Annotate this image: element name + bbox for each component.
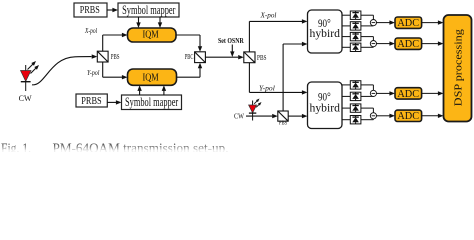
svg-text:hybird: hybird [310, 28, 341, 40]
svg-text:Symbol mapper: Symbol mapper [122, 3, 176, 17]
svg-text:ADC: ADC [397, 88, 419, 100]
symbol mapper box (X branch) [118, 3, 179, 17]
wire subtractor Y2 to ADC4 [377, 114, 396, 118]
photodiode box Y4 [350, 116, 361, 124]
svg-text:IQM: IQM [143, 30, 159, 41]
wire CW LO to PBS [246, 114, 278, 118]
wire ADC2 to DSP [422, 41, 444, 45]
wire symbol mapper to IQM (X) arrow 2 [158, 17, 162, 28]
balanced detector subtractor Y2 [370, 113, 376, 119]
90 degree hybrid (Y branch) [308, 82, 343, 129]
wire CW laser to PBS (curved fiber) [32, 54, 97, 84]
svg-text:CW: CW [19, 93, 32, 103]
svg-text:PBC: PBC [185, 53, 194, 61]
ADC box 3 [395, 88, 422, 100]
wires hybrid X outputs [342, 15, 350, 47]
wire IQM X to PBC [176, 35, 202, 52]
photodiode box X1 [350, 11, 361, 19]
balanced detector subtractor X1 [370, 20, 376, 26]
wire subtractor Y1 to ADC3 [377, 91, 396, 95]
PRBS generator box (Y branch) [76, 94, 107, 107]
wire PBS to IQM Y-pol [103, 62, 128, 79]
balanced detector subtractor Y1 [370, 90, 376, 96]
svg-text:PRBS: PRBS [80, 4, 100, 16]
wire PBS to IQM X-pol [103, 33, 128, 51]
symbol mapper box (Y branch) [122, 95, 182, 110]
svg-text:DSP processing: DSP processing [453, 29, 465, 107]
IQM modulator box (X branch) [128, 28, 177, 42]
photodiode box Y2 [350, 92, 361, 100]
wires photodiodes X pair 1 to subtractor [361, 15, 374, 26]
wire PBC to receiver PBS [205, 55, 243, 59]
wire LO PBS to 90 hybrid X [283, 42, 307, 111]
wire symbol mapper to IQM (Y) arrow 2 [162, 85, 166, 95]
svg-text:PBS: PBS [257, 54, 267, 62]
svg-text:PRBS: PRBS [81, 95, 101, 107]
svg-text:Y-pol: Y-pol [259, 83, 275, 92]
wires photodiodes Y pair 2 to subtractor [361, 108, 374, 120]
PBS polarization beam splitter (local oscillator) [278, 111, 288, 121]
wire subtractor X1 to ADC1 [377, 20, 396, 24]
svg-text:ADC: ADC [397, 17, 419, 29]
CW laser (local oscillator) [249, 97, 263, 120]
svg-text:hybird: hybird [310, 102, 341, 114]
wire IQM Y to PBC [177, 63, 203, 78]
wire PRBS to symbol mapper (X) [107, 8, 118, 12]
svg-text:X-pol: X-pol [260, 11, 277, 20]
ADC box 1 [395, 17, 422, 29]
DSP processing box [444, 15, 472, 122]
svg-text:ADC: ADC [397, 110, 419, 122]
PBS polarization beam splitter (transmitter) [97, 51, 108, 62]
wires hybrid Y outputs [342, 85, 350, 120]
svg-text:Symbol mapper: Symbol mapper [125, 95, 179, 109]
wire symbol mapper to IQM (Y) arrow 1 [137, 85, 141, 95]
wire PRBS to symbol mapper (Y) [107, 100, 121, 104]
ADC box 4 [395, 110, 422, 122]
PRBS generator box (X branch) [74, 3, 107, 17]
photodiode box X4 [350, 43, 361, 51]
balanced detector subtractor X2 [370, 41, 376, 47]
svg-text:Fig. 1.: Fig. 1. [1, 140, 31, 152]
wire subtractor X2 to ADC2 [377, 41, 396, 45]
wire receiver PBS to 90 hybrid Y [249, 63, 307, 95]
wire symbol mapper to IQM (X) arrow 1 [136, 17, 140, 28]
photodiode box X3 [350, 32, 361, 40]
svg-text:CW: CW [234, 112, 245, 121]
svg-text:PBS: PBS [111, 53, 120, 61]
svg-text:Set OSNR: Set OSNR [218, 37, 244, 45]
svg-text:Y-pol: Y-pol [87, 70, 99, 77]
PBS polarization beam splitter (receiver) [244, 52, 255, 63]
Set OSNR arrow [230, 45, 234, 58]
svg-text:X-pol: X-pol [84, 28, 97, 35]
CW laser (transmitter) [21, 60, 41, 91]
wire receiver PBS to 90 hybrid X [249, 19, 307, 52]
IQM modulator box (Y branch) [128, 69, 177, 85]
wire ADC4 to DSP [422, 114, 444, 118]
photodiode box X2 [350, 22, 361, 30]
photodiode box Y1 [350, 81, 361, 89]
wires photodiodes Y pair 1 to subtractor [361, 85, 374, 97]
photodiode box Y3 [350, 104, 361, 112]
90 degree hybrid (X branch) [308, 10, 343, 53]
ADC box 2 [395, 38, 422, 50]
svg-text:PBS: PBS [279, 119, 288, 126]
wire ADC1 to DSP [422, 20, 444, 24]
wire ADC3 to DSP [422, 91, 444, 95]
PBC polarization beam combiner [195, 52, 206, 63]
svg-text:IQM: IQM [143, 73, 159, 84]
svg-text:PM-64QAM transmission set-up.: PM-64QAM transmission set-up. [53, 140, 229, 152]
svg-text:ADC: ADC [397, 38, 419, 50]
wires photodiodes X pair 2 to subtractor [361, 37, 374, 48]
wire LO PBS to 90 hybrid Y [288, 114, 307, 118]
